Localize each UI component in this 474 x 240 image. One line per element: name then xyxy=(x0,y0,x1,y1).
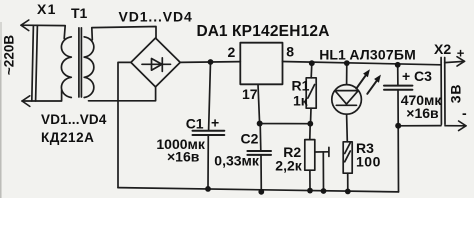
svg-text:17: 17 xyxy=(242,86,258,102)
svg-text:+: + xyxy=(402,68,410,84)
svg-text:0,33мк: 0,33мк xyxy=(214,153,260,169)
svg-text:2,2к: 2,2к xyxy=(275,157,302,173)
svg-text:-: - xyxy=(462,105,467,121)
svg-text:X2: X2 xyxy=(434,41,451,57)
svg-text:КД212А: КД212А xyxy=(41,130,94,145)
svg-text:C3: C3 xyxy=(414,68,432,84)
svg-text:+: + xyxy=(457,46,465,61)
svg-text:VD1...VD4: VD1...VD4 xyxy=(41,112,107,127)
svg-text:3В: 3В xyxy=(448,84,464,104)
svg-text:2: 2 xyxy=(228,44,236,60)
svg-text:C1: C1 xyxy=(186,116,204,132)
svg-text:~220В: ~220В xyxy=(2,35,17,75)
svg-text:HL1: HL1 xyxy=(319,46,346,62)
svg-text:1к: 1к xyxy=(293,93,309,109)
svg-text:VD1...VD4: VD1...VD4 xyxy=(119,9,193,25)
svg-text:8: 8 xyxy=(286,44,294,60)
svg-text:×16в: ×16в xyxy=(167,149,200,165)
svg-text:+: + xyxy=(211,115,219,131)
svg-text:R1: R1 xyxy=(292,78,310,94)
svg-text:DA1: DA1 xyxy=(197,23,228,40)
svg-text:C2: C2 xyxy=(241,131,259,147)
svg-text:X1: X1 xyxy=(37,1,57,17)
svg-text:АЛ307БМ: АЛ307БМ xyxy=(349,46,416,62)
svg-text:×16в: ×16в xyxy=(406,105,439,121)
svg-text:T1: T1 xyxy=(71,5,88,21)
svg-text:100: 100 xyxy=(356,154,381,170)
svg-text:КР142ЕН12А: КР142ЕН12А xyxy=(232,23,330,40)
